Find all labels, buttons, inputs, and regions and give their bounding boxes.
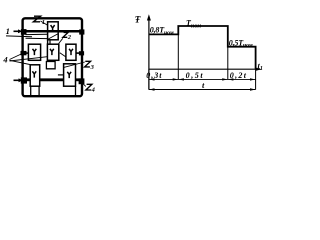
arrester box row2 middle [47, 44, 58, 60]
wire lower box extensions to bottom edge [30, 86, 32, 95]
svg-text:4: 4 [91, 87, 96, 94]
wire leader 4 to middle box [10, 57, 48, 61]
node mid-left junction dot [21, 51, 27, 55]
svg-text:1: 1 [42, 19, 45, 26]
wire leader Z2 [59, 38, 63, 43]
wire diagonal inside top box [48, 34, 58, 39]
label Z3 [85, 61, 91, 67]
svg-text:Ŧ: Ŧ [135, 15, 141, 25]
wire stub rail to row2 left box [24, 52, 28, 54]
label Z2 [63, 33, 68, 38]
arrester box row2 right [66, 44, 76, 60]
wire extension line x=178.3 [177, 34, 179, 79]
node bottom-right junction dot [79, 78, 85, 84]
wire left edge connector [47, 40, 49, 45]
node bottom-left junction dot [21, 77, 27, 83]
wire input arrow 1 [14, 30, 19, 32]
dimension line row1 [149, 78, 256, 80]
svg-text:0,2t: 0,2t [230, 71, 247, 80]
svg-text:0,5t: 0,5t [186, 71, 205, 80]
svg-text:3: 3 [90, 64, 95, 71]
wire extension line x=255.6 [255, 69, 257, 89]
node top-left junction dot [21, 29, 27, 35]
wire stub row2 right box to rail [76, 52, 81, 54]
node mid-right junction dot [79, 51, 84, 55]
arrester Z1 top box [48, 22, 59, 40]
svg-text:2: 2 [67, 34, 72, 41]
wire top bus [22, 30, 83, 33]
wire open loop between lower boxes [46, 62, 55, 69]
arrester Z1 arrow symbol [51, 25, 55, 32]
wire stub left of lower box right [58, 74, 64, 76]
svg-text:4: 4 [2, 55, 7, 65]
wire input arrow bottom [14, 79, 19, 81]
svg-text:0,3t: 0,3t [146, 71, 162, 80]
label Z4 [86, 84, 92, 90]
wire leader Z3 [63, 62, 85, 68]
waveform [149, 26, 256, 69]
axis vertical T [148, 19, 150, 90]
node top-right junction dot [79, 29, 84, 34]
wire extension line x=227.8 [227, 47, 229, 80]
wire leader 4 to mid dot [10, 54, 22, 60]
wire leader Z1 [41, 21, 48, 25]
wire leader near box3 [60, 53, 66, 57]
wire leader Z4 [82, 82, 86, 86]
arrester lower box right [64, 64, 76, 86]
wire thin line A below bus [26, 33, 48, 35]
wire thin line B from left [6, 35, 32, 38]
dimension line row2 [149, 89, 256, 91]
wire extension axis bottom [148, 69, 150, 89]
wire leader 4 to lower box [10, 60, 30, 64]
wire bottom bus [22, 78, 30, 81]
arrester box row2 left [28, 44, 40, 60]
outer enclosure rounded rect [23, 18, 82, 96]
label Z1 [33, 16, 40, 22]
svg-text:1: 1 [6, 26, 10, 36]
arrester lower box left [30, 65, 40, 86]
wire stub top box to middle box [49, 40, 51, 45]
wire thin line C into top box [26, 37, 48, 39]
axis horizontal t1 [149, 68, 260, 70]
